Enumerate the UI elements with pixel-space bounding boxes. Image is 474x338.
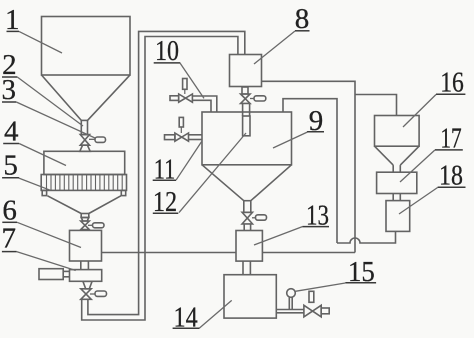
label 2 <box>2 49 83 126</box>
label 5 <box>2 149 50 190</box>
label 7 <box>2 223 76 271</box>
box 6 body <box>70 230 102 261</box>
label 11 <box>153 141 202 186</box>
connector valve to box 13 <box>244 224 250 231</box>
wire box13 to right pipe <box>262 252 355 254</box>
label 1 <box>5 4 62 53</box>
svg-text:5: 5 <box>3 149 18 181</box>
label 12 <box>153 133 246 218</box>
flat box 7 <box>70 270 102 282</box>
valve 10 inlet cap <box>170 96 179 101</box>
valve 10 body <box>179 89 193 102</box>
wire with jump to box 18 <box>337 232 396 244</box>
label 17 <box>400 122 463 182</box>
hopper 16 body <box>375 116 420 147</box>
valve 11 inlet cap <box>165 135 175 140</box>
valve 10 stem <box>183 79 187 90</box>
flange into box 4 <box>80 145 90 151</box>
box 14 body <box>224 275 276 318</box>
label 16 <box>403 67 465 127</box>
butterfly valve V1 body <box>80 135 89 146</box>
valve handle under box 4 <box>88 223 104 228</box>
connector box13 to box14 <box>243 261 250 275</box>
valve handle under box 8 <box>250 96 266 101</box>
valve 11 outlet pipe <box>189 135 203 140</box>
label 10 <box>154 35 204 98</box>
tank 9 funnel <box>202 165 292 201</box>
label 4 <box>3 115 66 165</box>
wire branch to hopper 16 <box>355 95 397 116</box>
conveying pipe loop inner line <box>88 31 245 314</box>
valve 15 stem <box>309 291 314 302</box>
label 13 <box>254 200 329 245</box>
connector 16 to 17 <box>393 165 400 172</box>
tank 9 body <box>202 112 292 165</box>
screening box 4 <box>44 151 125 174</box>
pressure gauge dial <box>287 289 296 298</box>
label 15 <box>295 256 376 291</box>
label 9 <box>273 105 324 148</box>
valve handle under tank 9 <box>252 215 267 220</box>
tank 9 outlet box <box>244 201 251 213</box>
box 17 body <box>377 172 417 193</box>
connector 17 to 18 <box>393 194 400 201</box>
label 18 <box>399 160 466 215</box>
svg-text:3: 3 <box>2 74 17 106</box>
wire tank9 to vertical <box>283 99 337 243</box>
valve 10 outlet pipe <box>192 96 216 112</box>
conveying pipe loop outer line <box>82 37 238 321</box>
outlet pipe end <box>321 308 329 314</box>
nozzle pipe 12 <box>243 116 250 136</box>
wire box6 to box13 <box>102 252 237 254</box>
sieve right foot <box>121 190 125 195</box>
motor coupling stub <box>63 271 69 276</box>
box 18 body <box>386 201 410 232</box>
outlet pipe of box 14 <box>276 310 304 313</box>
valve handle under box 7 <box>90 291 107 296</box>
label 6 <box>2 194 81 247</box>
pressure gauge stem <box>289 297 292 309</box>
butterfly valve under box 8 <box>241 94 250 103</box>
svg-text:4: 4 <box>4 115 19 147</box>
pipe from valve into tank 9 <box>243 103 250 116</box>
hopper 16 funnel <box>375 146 420 165</box>
tank 1 funnel <box>42 75 131 120</box>
valve stem under box 8 <box>242 87 248 94</box>
valve stem pipe under tank 1 <box>81 120 87 134</box>
butterfly valve under box 4 <box>81 221 90 230</box>
outlet box under box 4 <box>81 214 89 222</box>
valve V1 handle <box>89 137 106 142</box>
butterfly valve under box 7 <box>81 289 91 300</box>
tank 1 body <box>42 17 131 76</box>
motor box left of 7 <box>39 269 63 280</box>
label 3 <box>2 74 95 138</box>
wire box8 to down pipe <box>262 81 356 252</box>
box 13 body <box>236 231 262 262</box>
svg-text:7: 7 <box>2 223 17 255</box>
box 4 funnel <box>48 196 121 214</box>
butterfly valve under tank 9 <box>242 212 252 224</box>
valve 15 body <box>304 305 321 317</box>
label 14 <box>173 300 232 333</box>
valve 11 body <box>175 127 189 141</box>
label 8 <box>254 3 310 64</box>
discharge cone under box 7 <box>83 281 92 289</box>
box 8 body <box>230 55 262 87</box>
connector box6 to box7 <box>81 261 89 270</box>
valve 11 stem <box>179 117 183 127</box>
sieve band 5 <box>41 175 126 191</box>
sieve left foot <box>42 190 46 195</box>
